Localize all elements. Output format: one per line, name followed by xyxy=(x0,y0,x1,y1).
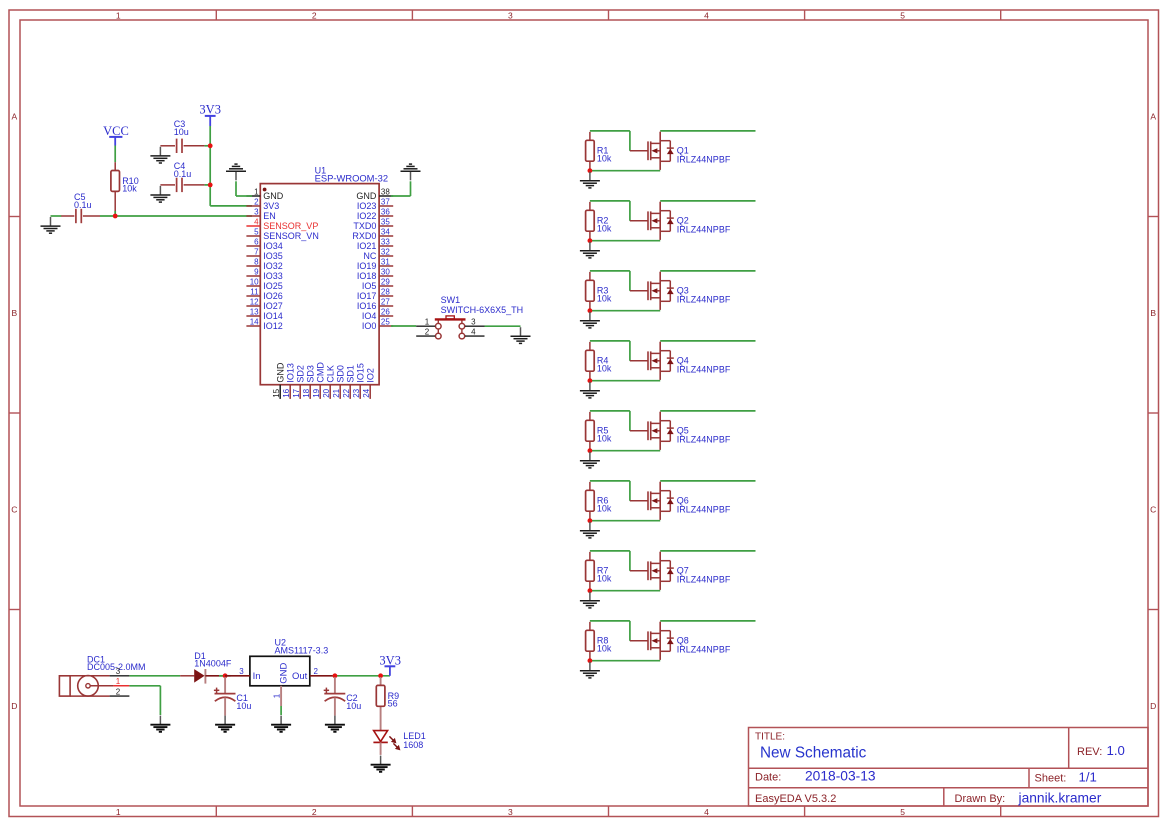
svg-text:IRLZ44NPBF: IRLZ44NPBF xyxy=(677,365,731,375)
svg-text:C: C xyxy=(1150,504,1156,514)
svg-text:30: 30 xyxy=(381,267,390,276)
svg-text:REV:: REV: xyxy=(1077,746,1102,758)
U1 pin 36 (IO22) xyxy=(357,207,393,221)
power flag 3V3 xyxy=(199,103,221,126)
svg-text:12: 12 xyxy=(250,297,259,306)
R4 leads xyxy=(589,342,591,381)
U2 pin 1 (GND) xyxy=(272,686,281,706)
DC1 pin 1 xyxy=(113,677,129,686)
transistor Q6 IRLZ44NPBF xyxy=(630,482,731,520)
svg-text:GND: GND xyxy=(263,191,284,201)
svg-text:10k: 10k xyxy=(597,643,612,653)
U1 pin 30 (IO18) xyxy=(357,267,393,281)
svg-text:IO35: IO35 xyxy=(263,251,283,261)
svg-text:15: 15 xyxy=(272,388,281,397)
svg-text:SD3: SD3 xyxy=(306,365,316,383)
U1 pin 6 (IO34) xyxy=(246,237,282,251)
svg-text:10k: 10k xyxy=(597,433,612,443)
svg-text:B: B xyxy=(11,308,17,318)
svg-text:2: 2 xyxy=(312,11,317,21)
junction xyxy=(113,214,118,219)
svg-text:IRLZ44NPBF: IRLZ44NPBF xyxy=(677,155,731,165)
resistor R9 56 xyxy=(380,677,382,731)
junction xyxy=(588,378,593,383)
svg-text:IRLZ44NPBF: IRLZ44NPBF xyxy=(677,645,731,655)
svg-text:4: 4 xyxy=(254,217,259,226)
junction xyxy=(223,673,228,678)
ground xyxy=(226,164,246,180)
wire (source net Q3) xyxy=(590,310,660,312)
resistor R10 10k xyxy=(114,162,116,213)
junction xyxy=(588,238,593,243)
svg-text:IO5: IO5 xyxy=(362,281,377,291)
wire (gate net Q7) xyxy=(590,551,630,571)
U1 pin 28 (IO17) xyxy=(357,287,393,301)
svg-text:IO14: IO14 xyxy=(263,311,283,321)
svg-text:28: 28 xyxy=(381,287,390,296)
svg-text:IO16: IO16 xyxy=(357,301,377,311)
U1 pin 25 (IO0) xyxy=(362,317,393,331)
transistor Q5 IRLZ44NPBF xyxy=(630,412,731,450)
wire xyxy=(209,126,211,206)
svg-text:32: 32 xyxy=(381,247,390,256)
revision xyxy=(1077,743,1125,758)
U1 pin 35 (TXD0) xyxy=(353,217,393,231)
svg-text:10k: 10k xyxy=(122,184,137,194)
U1 pin 10 (IO25) xyxy=(246,277,282,291)
svg-text:IO34: IO34 xyxy=(263,241,283,251)
title block xyxy=(749,728,1149,807)
svg-text:3: 3 xyxy=(116,667,121,676)
capacitor C5 0.1u xyxy=(61,192,100,223)
svg-text:SD2: SD2 xyxy=(296,365,306,383)
U1 pin 13 (IO14) xyxy=(246,307,282,321)
svg-text:33: 33 xyxy=(381,237,390,246)
wire (drain net Q7) xyxy=(660,550,755,552)
svg-text:SENSOR_VP: SENSOR_VP xyxy=(263,221,318,231)
svg-text:IO18: IO18 xyxy=(357,271,377,281)
ground xyxy=(580,592,600,608)
svg-text:20: 20 xyxy=(322,388,331,397)
wire (drain net Q1) xyxy=(660,130,755,132)
svg-text:CLK: CLK xyxy=(326,365,336,383)
svg-text:D: D xyxy=(1150,701,1156,711)
wire (EN net) xyxy=(100,215,252,217)
wire (3V3 net) xyxy=(332,675,390,677)
svg-text:1: 1 xyxy=(272,693,281,698)
wire xyxy=(114,211,116,216)
wire (source net Q7) xyxy=(590,590,660,592)
ground xyxy=(150,186,170,202)
wire (IO0 net) xyxy=(391,325,416,327)
svg-text:16: 16 xyxy=(282,388,291,397)
U1 pin 16 (IO13) xyxy=(282,363,295,399)
wire (gate net Q4) xyxy=(590,341,630,361)
U1 pin 32 (NC) xyxy=(363,247,393,261)
DC1 pin 3 xyxy=(110,667,130,676)
resistor R2 10k xyxy=(586,210,612,233)
junction xyxy=(588,448,593,453)
ground xyxy=(150,716,170,732)
svg-text:25: 25 xyxy=(381,317,390,326)
wire (drain net Q2) xyxy=(660,200,755,202)
svg-text:IO22: IO22 xyxy=(357,211,377,221)
R3 leads xyxy=(589,272,591,311)
U1 pin 12 (IO27) xyxy=(246,297,282,311)
svg-text:10k: 10k xyxy=(597,223,612,233)
svg-text:6: 6 xyxy=(254,237,259,246)
svg-text:SD0: SD0 xyxy=(336,365,346,383)
svg-text:3: 3 xyxy=(239,667,244,676)
svg-text:10u: 10u xyxy=(346,701,361,711)
junction xyxy=(588,518,593,523)
svg-text:10k: 10k xyxy=(597,573,612,583)
ground xyxy=(371,756,391,772)
U1 pin 1 (GND) xyxy=(246,187,283,201)
R8 leads xyxy=(589,622,591,661)
svg-text:9: 9 xyxy=(254,267,259,276)
resistor R3 10k xyxy=(586,280,612,303)
switch SW1 SWITCH-6X6X5_TH xyxy=(435,295,523,339)
LED LED1 1608 xyxy=(373,731,425,755)
svg-text:0.1u: 0.1u xyxy=(74,200,92,210)
svg-text:IO19: IO19 xyxy=(357,261,377,271)
svg-text:1608: 1608 xyxy=(403,740,423,750)
svg-text:27: 27 xyxy=(381,297,390,306)
resistor R9 56 xyxy=(376,685,399,708)
svg-text:26: 26 xyxy=(381,307,390,316)
wire (gate net Q1) xyxy=(590,131,630,151)
svg-text:1: 1 xyxy=(116,807,121,817)
svg-text:3: 3 xyxy=(471,318,476,327)
svg-text:1N4004F: 1N4004F xyxy=(194,658,232,668)
svg-text:IRLZ44NPBF: IRLZ44NPBF xyxy=(677,575,731,585)
svg-text:18: 18 xyxy=(302,388,311,397)
svg-text:GND: GND xyxy=(356,191,377,201)
svg-text:3V3: 3V3 xyxy=(199,103,221,117)
ground xyxy=(271,716,291,732)
svg-text:4: 4 xyxy=(704,807,709,817)
SW1 pin 4 xyxy=(465,328,485,337)
svg-text:IO13: IO13 xyxy=(286,363,296,383)
resistor R1 10k xyxy=(586,140,612,163)
title text xyxy=(755,732,867,762)
U2 pin 3 (In) xyxy=(225,667,250,676)
transistor Q4 IRLZ44NPBF xyxy=(630,342,731,380)
svg-text:3: 3 xyxy=(508,11,513,21)
svg-text:IO32: IO32 xyxy=(263,261,283,271)
svg-text:10k: 10k xyxy=(597,503,612,513)
svg-text:jannik.kramer: jannik.kramer xyxy=(1018,790,1102,805)
op-amp U1 ESP-WROOM-32 (module body) xyxy=(260,166,388,385)
wire (source net Q5) xyxy=(590,450,660,452)
svg-text:5: 5 xyxy=(900,807,905,817)
svg-text:IO33: IO33 xyxy=(263,271,283,281)
svg-text:A: A xyxy=(11,112,17,122)
U1 pin 3 (EN) xyxy=(246,207,275,221)
svg-text:1: 1 xyxy=(116,11,121,21)
svg-text:Drawn By:: Drawn By: xyxy=(955,793,1006,805)
svg-text:TXD0: TXD0 xyxy=(353,221,376,231)
svg-text:C: C xyxy=(11,504,17,514)
svg-text:3: 3 xyxy=(254,207,259,216)
wire (gate net Q2) xyxy=(590,201,630,221)
svg-text:36: 36 xyxy=(381,207,390,216)
R2 leads xyxy=(589,202,591,241)
svg-text:IO26: IO26 xyxy=(263,291,283,301)
U1 pin 31 (IO19) xyxy=(357,257,393,271)
svg-text:TITLE:: TITLE: xyxy=(755,732,785,743)
svg-text:34: 34 xyxy=(381,227,390,236)
wire (gate net Q6) xyxy=(590,481,630,501)
U1 pin 24 (IO2) xyxy=(362,368,375,399)
ground xyxy=(215,716,235,732)
resistor R8 10k xyxy=(586,630,612,653)
resistor R4 10k xyxy=(586,350,612,373)
transistor Q3 IRLZ44NPBF xyxy=(630,272,731,310)
ground xyxy=(580,312,600,328)
U1 pin 26 (IO4) xyxy=(362,307,393,321)
U1 pin 20 (CLK) xyxy=(322,365,335,399)
U1 pin 37 (IO23) xyxy=(357,197,393,211)
junction xyxy=(588,308,593,313)
svg-text:New Schematic: New Schematic xyxy=(760,745,867,762)
R5 leads xyxy=(589,412,591,451)
svg-text:1/1: 1/1 xyxy=(1079,769,1097,784)
svg-text:17: 17 xyxy=(292,388,301,397)
sheet xyxy=(1035,769,1097,784)
svg-text:2: 2 xyxy=(314,667,319,676)
U1 pin 5 (SENSOR_VN) xyxy=(246,227,318,241)
wire xyxy=(210,205,252,207)
svg-text:IRLZ44NPBF: IRLZ44NPBF xyxy=(677,505,731,515)
U1 pin 21 (SD0) xyxy=(332,365,345,399)
svg-text:10k: 10k xyxy=(597,153,612,163)
ground xyxy=(401,164,421,180)
svg-text:5: 5 xyxy=(900,11,905,21)
date xyxy=(755,769,876,784)
svg-text:SENSOR_VN: SENSOR_VN xyxy=(263,231,319,241)
wire xyxy=(280,706,282,715)
connector DC1 DC005-2.0MM (barrel jack) xyxy=(59,655,145,697)
svg-text:8: 8 xyxy=(254,257,259,266)
U1 pin 11 (IO26) xyxy=(246,287,282,301)
svg-text:ESP-WROOM-32: ESP-WROOM-32 xyxy=(315,172,388,183)
U1 pin 27 (IO16) xyxy=(357,297,393,311)
svg-text:2: 2 xyxy=(312,807,317,817)
wire (drain net Q4) xyxy=(660,340,755,342)
svg-text:RXD0: RXD0 xyxy=(352,231,376,241)
svg-text:2: 2 xyxy=(425,328,430,337)
svg-text:IO25: IO25 xyxy=(263,281,283,291)
svg-text:56: 56 xyxy=(388,699,398,709)
wire (source net Q6) xyxy=(590,520,660,522)
resistor R6 10k xyxy=(586,490,612,513)
svg-text:31: 31 xyxy=(381,257,390,266)
capacitor C1 10u (polarized) xyxy=(214,677,252,716)
svg-text:Sheet:: Sheet: xyxy=(1035,773,1067,785)
U1 pin 19 (CMD) xyxy=(312,362,325,399)
drawn by xyxy=(955,790,1102,805)
svg-text:SWITCH-6X6X5_TH: SWITCH-6X6X5_TH xyxy=(441,305,524,315)
svg-text:A: A xyxy=(1150,112,1156,122)
svg-text:23: 23 xyxy=(352,388,361,397)
svg-text:4: 4 xyxy=(471,328,476,337)
svg-text:IO17: IO17 xyxy=(357,291,377,301)
svg-text:10u: 10u xyxy=(236,701,251,711)
R1 leads xyxy=(589,132,591,171)
ground xyxy=(511,327,531,343)
capacitor C3 10u xyxy=(160,119,204,153)
svg-text:1: 1 xyxy=(425,318,430,327)
svg-text:10u: 10u xyxy=(174,127,189,137)
transistor Q2 IRLZ44NPBF xyxy=(630,202,731,240)
svg-text:4: 4 xyxy=(704,11,709,21)
svg-text:GND: GND xyxy=(278,663,289,684)
junction xyxy=(378,673,383,678)
svg-text:7: 7 xyxy=(254,247,259,256)
svg-text:13: 13 xyxy=(250,307,259,316)
wire (drain net Q5) xyxy=(660,410,755,412)
svg-text:22: 22 xyxy=(342,388,351,397)
svg-text:10: 10 xyxy=(250,277,259,286)
SW1 pin 1 xyxy=(416,318,435,327)
U1 pin 29 (IO5) xyxy=(362,277,393,291)
svg-text:5: 5 xyxy=(254,227,259,236)
ground xyxy=(150,147,170,163)
transistor Q8 IRLZ44NPBF xyxy=(630,622,731,660)
capacitor C2 10u (polarized) xyxy=(324,677,362,716)
ground xyxy=(580,172,600,188)
resistor R10 10k xyxy=(111,171,139,194)
wire (source net Q2) xyxy=(590,240,660,242)
svg-text:IO23: IO23 xyxy=(357,201,377,211)
power flag 3V3 xyxy=(379,653,401,675)
svg-text:19: 19 xyxy=(312,388,321,397)
junction xyxy=(588,168,593,173)
wire (source net Q8) xyxy=(590,660,660,662)
junction xyxy=(588,658,593,663)
svg-text:38: 38 xyxy=(381,187,390,196)
svg-text:IO2: IO2 xyxy=(366,368,376,383)
wire xyxy=(114,146,116,163)
wire xyxy=(129,686,160,715)
wire xyxy=(219,675,231,677)
svg-text:Date:: Date: xyxy=(755,772,781,784)
svg-text:SD1: SD1 xyxy=(346,365,356,383)
svg-text:2018-03-13: 2018-03-13 xyxy=(805,769,876,784)
svg-text:IO4: IO4 xyxy=(362,311,377,321)
U1 pin 33 (IO21) xyxy=(357,237,393,251)
svg-text:11: 11 xyxy=(250,287,259,296)
U2 pin 2 (Out) xyxy=(310,667,335,676)
U1 pin 23 (IO15) xyxy=(352,363,365,399)
svg-text:1: 1 xyxy=(116,677,121,686)
wire xyxy=(485,325,521,327)
wire xyxy=(51,215,62,217)
SW1 pin 3 xyxy=(465,318,485,327)
svg-text:IO15: IO15 xyxy=(356,363,366,383)
wire xyxy=(205,145,211,147)
svg-text:IO12: IO12 xyxy=(263,321,283,331)
svg-text:2: 2 xyxy=(116,688,121,697)
svg-text:24: 24 xyxy=(362,388,371,397)
svg-text:1: 1 xyxy=(254,187,259,196)
U1 pin 18 (SD3) xyxy=(302,365,315,399)
svg-text:IO21: IO21 xyxy=(357,241,377,251)
svg-text:10k: 10k xyxy=(597,293,612,303)
svg-text:AMS1117-3.3: AMS1117-3.3 xyxy=(275,646,329,656)
transistor Q1 IRLZ44NPBF xyxy=(630,132,731,170)
junction xyxy=(588,588,593,593)
SW1 pin 2 xyxy=(416,328,435,337)
junction xyxy=(208,183,213,188)
svg-text:14: 14 xyxy=(250,317,259,326)
wire xyxy=(391,181,411,196)
ground xyxy=(580,242,600,258)
svg-text:35: 35 xyxy=(381,217,390,226)
junction xyxy=(208,143,213,148)
diode D1 1N4004F xyxy=(180,651,232,684)
svg-text:EasyEDA V5.3.2: EasyEDA V5.3.2 xyxy=(755,793,836,805)
svg-text:EN: EN xyxy=(263,211,276,221)
svg-text:37: 37 xyxy=(381,197,390,206)
ground xyxy=(580,452,600,468)
U1 pin 14 (IO12) xyxy=(246,317,282,331)
ground xyxy=(580,382,600,398)
svg-text:IO0: IO0 xyxy=(362,321,377,331)
resistor R7 10k xyxy=(586,560,612,583)
wire (drain net Q8) xyxy=(660,620,755,622)
R7 leads xyxy=(589,552,591,591)
U1 pin 2 (3V3) xyxy=(246,197,279,211)
ground xyxy=(580,522,600,538)
svg-text:3: 3 xyxy=(508,807,513,817)
svg-text:NC: NC xyxy=(363,251,376,261)
svg-text:CMD: CMD xyxy=(316,362,326,383)
U1 pin 8 (IO32) xyxy=(246,257,282,271)
svg-text:21: 21 xyxy=(332,388,341,397)
wire (drain net Q6) xyxy=(660,480,755,482)
wire (source net Q1) xyxy=(590,170,660,172)
wire xyxy=(205,184,211,186)
svg-text:In: In xyxy=(253,671,261,682)
U1 pin 38 (GND) xyxy=(356,187,393,201)
R6 leads xyxy=(589,482,591,521)
svg-text:D: D xyxy=(11,701,17,711)
transistor Q7 IRLZ44NPBF xyxy=(630,552,731,590)
regulator U2 AMS1117-3.3 xyxy=(250,637,328,685)
U1 pin 17 (SD2) xyxy=(292,365,305,399)
ground xyxy=(41,217,61,233)
svg-text:2: 2 xyxy=(254,197,259,206)
svg-text:IRLZ44NPBF: IRLZ44NPBF xyxy=(677,435,731,445)
U1 pin 22 (SD1) xyxy=(342,365,355,399)
svg-text:SW1: SW1 xyxy=(441,295,461,305)
svg-text:0.1u: 0.1u xyxy=(174,169,192,179)
ground xyxy=(325,716,345,732)
svg-text:1.0: 1.0 xyxy=(1107,743,1125,758)
U1 pin 15 (GND) xyxy=(272,362,285,399)
svg-text:IRLZ44NPBF: IRLZ44NPBF xyxy=(677,225,731,235)
wire (source net Q4) xyxy=(590,380,660,382)
svg-text:IRLZ44NPBF: IRLZ44NPBF xyxy=(677,295,731,305)
svg-text:3V3: 3V3 xyxy=(263,201,279,211)
U1 pin 4 (SENSOR_VP) xyxy=(246,217,318,231)
wire (gate net Q3) xyxy=(590,271,630,291)
wire xyxy=(236,181,252,196)
U1 pin 9 (IO33) xyxy=(246,267,282,281)
